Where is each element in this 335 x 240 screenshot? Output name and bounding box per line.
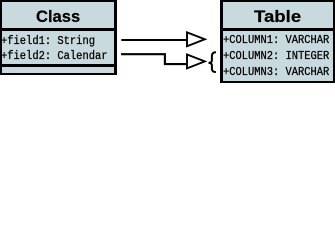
arrow 2 open triangle head xyxy=(187,55,205,69)
arrow 2 shaft (bent) xyxy=(121,54,187,64)
Class bottom compartment separator xyxy=(0,64,117,67)
COLUMN1 text xyxy=(223,35,329,46)
COLUMN3 text xyxy=(223,67,329,78)
table box "Table" xyxy=(220,0,335,83)
curly brace grouping COLUMN2+COLUMN3 xyxy=(209,52,217,72)
arrow 1 shaft xyxy=(121,39,187,41)
Class header separator xyxy=(0,28,117,31)
COLUMN2 text xyxy=(223,51,329,62)
title Class xyxy=(36,11,80,23)
field1 text xyxy=(1,36,95,47)
arrows + brace overlay xyxy=(0,0,335,86)
arrow 1 open triangle head xyxy=(187,32,205,46)
UML class box "Class" xyxy=(0,0,117,75)
title Table xyxy=(254,11,301,23)
Table header separator xyxy=(220,28,335,31)
field2 text xyxy=(1,51,108,62)
